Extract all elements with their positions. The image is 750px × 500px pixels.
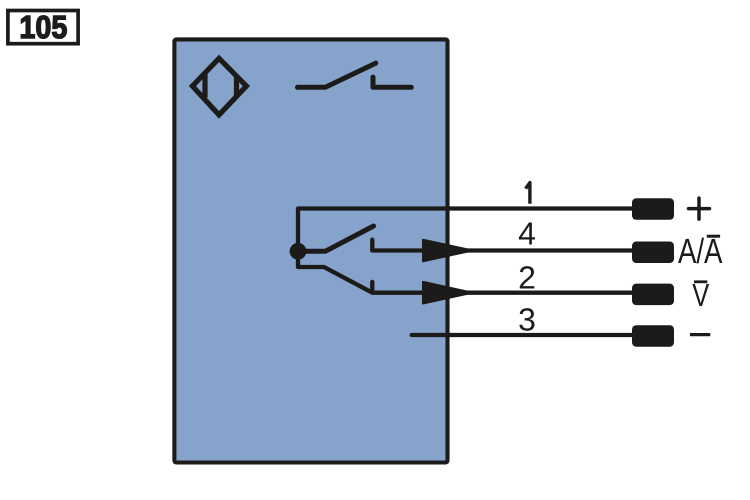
svg-text:2: 2 (518, 259, 536, 295)
svg-text:A/A: A/A (678, 232, 723, 271)
svg-text:105: 105 (19, 9, 67, 45)
svg-text:4: 4 (518, 215, 536, 251)
svg-text:3: 3 (518, 302, 536, 338)
